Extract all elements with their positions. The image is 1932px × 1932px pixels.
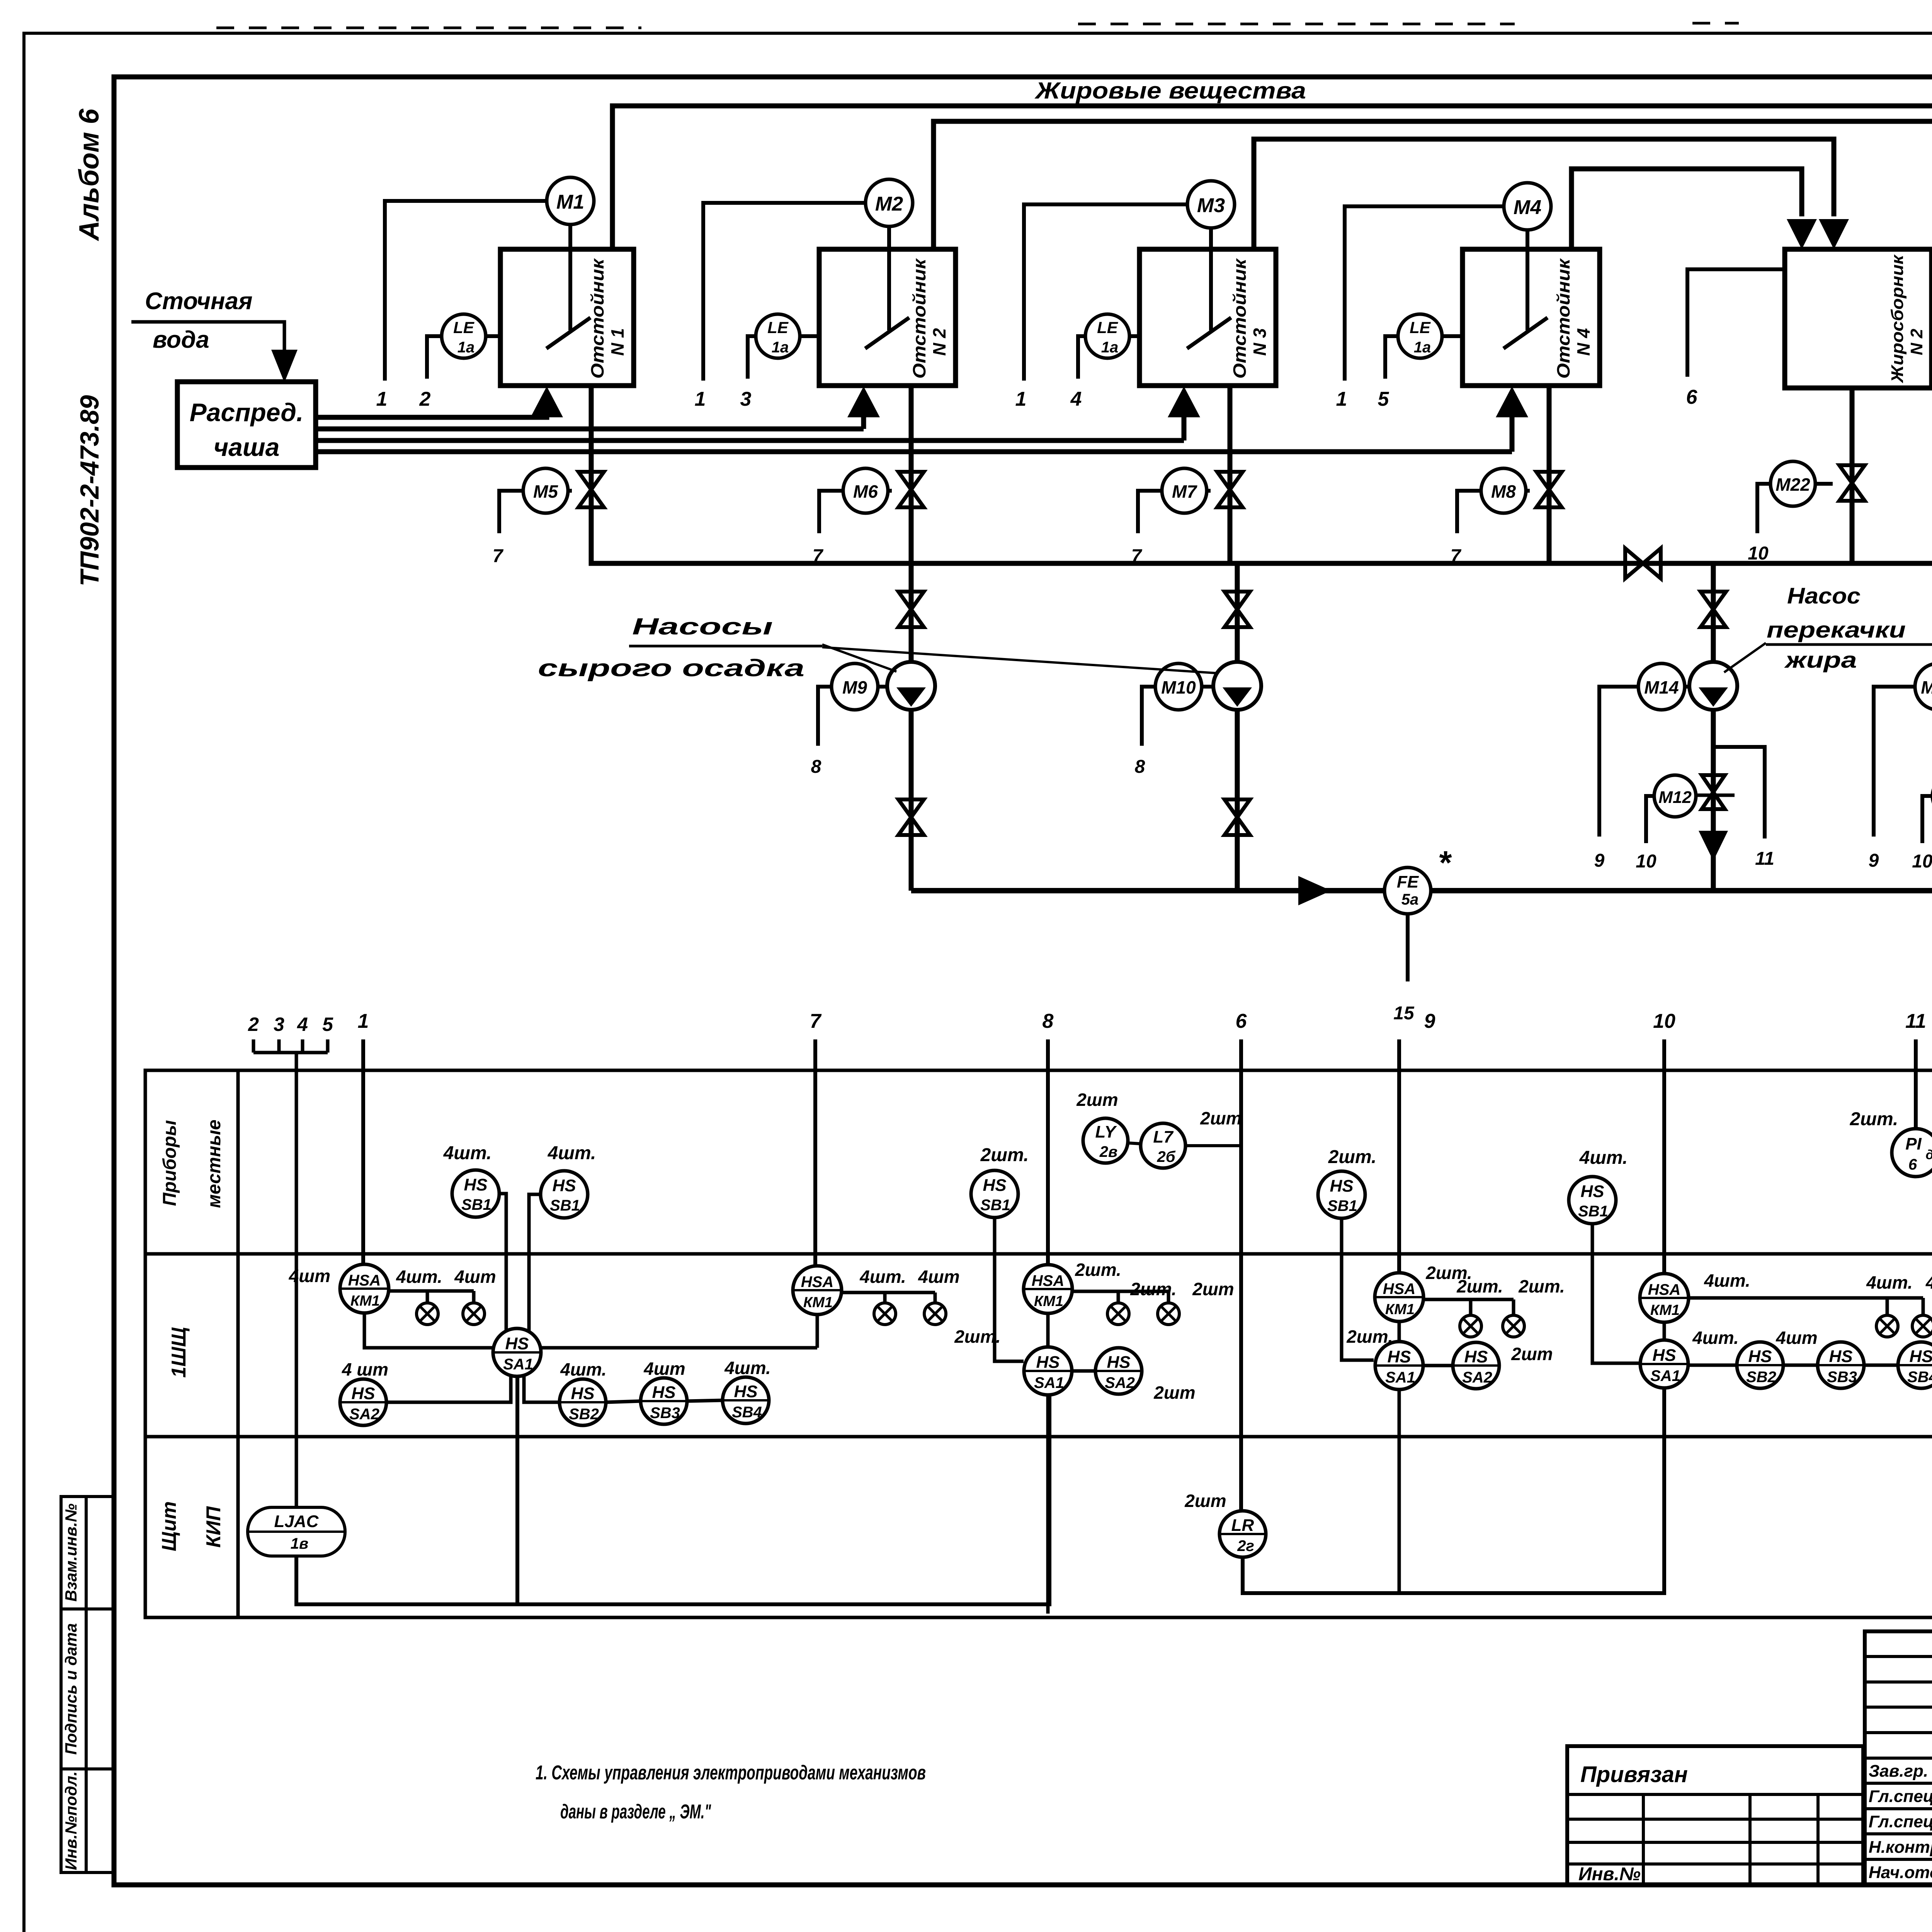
svg-text:чаша: чаша xyxy=(214,433,280,461)
wire SB1a to SA1 xyxy=(499,1194,506,1331)
motor circle М15 xyxy=(1915,663,1932,710)
wire column 8 xyxy=(1046,1039,1050,1268)
wire SA1A to SA2 xyxy=(386,1375,511,1402)
wire KM1(col10) to SA1 xyxy=(1663,1322,1666,1340)
wire KM1(col8) to SA1 xyxy=(1046,1313,1050,1347)
svg-text:10: 10 xyxy=(1636,851,1656,872)
svg-text:SB3: SB3 xyxy=(1827,1369,1857,1386)
svg-text:Насос: Насос xyxy=(1787,583,1861,609)
level device L7 2б xyxy=(1141,1123,1185,1168)
svg-text:Привязан: Привязан xyxy=(1580,1762,1688,1787)
svg-text:3: 3 xyxy=(274,1014,284,1035)
selector HS SA1 (group A) xyxy=(493,1328,541,1376)
svg-text:SB1: SB1 xyxy=(1327,1197,1357,1214)
margin strip cells xyxy=(61,1497,114,1872)
motor М13 stub 10 xyxy=(1922,796,1932,843)
wire SB1(col8) down xyxy=(995,1218,1024,1361)
svg-text:Инв.№: Инв.№ xyxy=(1578,1864,1641,1884)
wire SB2-SB3 (A) xyxy=(606,1401,641,1402)
flow element FE 5a xyxy=(1384,867,1431,914)
svg-text:HS: HS xyxy=(983,1176,1006,1195)
attach block xyxy=(1567,1746,1863,1885)
svg-text:LE: LE xyxy=(1410,318,1431,337)
svg-text:Жировые вещества: Жировые вещества xyxy=(1034,78,1306,104)
svg-text:SA1: SA1 xyxy=(1034,1374,1064,1391)
svg-text:2шт.: 2шт. xyxy=(954,1327,1001,1347)
motor М15 stub 9 xyxy=(1874,687,1915,837)
scan marks top xyxy=(216,23,1932,28)
svg-text:N 2: N 2 xyxy=(1907,328,1926,355)
riser to pump М9 xyxy=(909,563,914,891)
svg-text:КМ1: КМ1 xyxy=(1034,1293,1063,1310)
motor M6 tick xyxy=(888,489,892,493)
svg-text:7: 7 xyxy=(1131,546,1143,566)
svg-text:*: * xyxy=(1439,845,1452,881)
svg-text:HSA: HSA xyxy=(801,1274,833,1291)
svg-text:2б: 2б xyxy=(1156,1148,1175,1165)
wire SA1-SB2 (col10) xyxy=(1688,1364,1737,1367)
svg-text:2шт: 2шт xyxy=(1184,1491,1226,1511)
pipe fat line 3 xyxy=(1254,139,1834,249)
svg-text:8: 8 xyxy=(1043,1010,1054,1032)
valve M5 on drain N1 xyxy=(578,472,604,507)
selector HS SA1 (col9) xyxy=(1375,1342,1423,1389)
svg-text:перекачки: перекачки xyxy=(1767,617,1906,643)
svg-text:Насосы: Насосы xyxy=(632,614,773,639)
motor circle М14 xyxy=(1638,663,1685,710)
svg-text:6: 6 xyxy=(1236,1010,1247,1032)
svg-text:LR: LR xyxy=(1231,1516,1254,1535)
svg-text:11: 11 xyxy=(1905,1010,1926,1032)
svg-text:Подпись и дата: Подпись и дата xyxy=(62,1623,80,1755)
svg-text:д: д xyxy=(1925,1148,1932,1162)
flow arrow on line 1 xyxy=(1298,876,1331,905)
inlet leader line xyxy=(131,322,284,350)
motor M7 xyxy=(1162,468,1207,513)
lamp arm (col8) xyxy=(1072,1290,1168,1293)
LE stub (tank N1) xyxy=(427,336,442,379)
svg-text:4: 4 xyxy=(1070,388,1082,410)
svg-text:SB2: SB2 xyxy=(569,1406,599,1423)
wire LJAC to SA1 bus xyxy=(296,1396,1049,1604)
svg-text:местные: местные xyxy=(204,1120,224,1208)
lamp E2 xyxy=(1912,1315,1932,1337)
svg-text:5: 5 xyxy=(322,1014,333,1035)
svg-text:HS: HS xyxy=(505,1334,529,1353)
svg-text:М14: М14 xyxy=(1644,677,1679,697)
wire KM1(col9) to SA1 xyxy=(1398,1321,1401,1342)
svg-text:LY: LY xyxy=(1095,1122,1117,1141)
motor M8 tick xyxy=(1526,489,1530,493)
svg-text:2г: 2г xyxy=(1237,1537,1254,1554)
valve М12 xyxy=(1702,775,1725,809)
svg-text:1а: 1а xyxy=(772,339,789,356)
svg-text:8: 8 xyxy=(1135,757,1145,777)
level sensor LE 1a (tank N3) xyxy=(1085,314,1129,358)
lamp A1 xyxy=(417,1303,438,1325)
svg-text:HSA: HSA xyxy=(348,1272,381,1289)
level sensor LE 1a (tank N4) xyxy=(1398,314,1442,358)
motor М12 stub 10 xyxy=(1646,796,1654,843)
svg-text:Приборы: Приборы xyxy=(160,1120,180,1206)
tick L7-col6 xyxy=(1185,1144,1241,1147)
svg-text:2шт: 2шт xyxy=(1076,1090,1118,1110)
svg-text:LE: LE xyxy=(453,318,475,337)
svg-text:SA2: SA2 xyxy=(1105,1374,1135,1391)
wire column 1 xyxy=(361,1039,365,1264)
valve on fat N2 drain xyxy=(1839,465,1865,501)
svg-text:1: 1 xyxy=(1336,388,1347,410)
svg-text:2шт.: 2шт. xyxy=(1130,1279,1177,1299)
button HS SB1 (tanks, a) xyxy=(452,1170,499,1217)
svg-text:4шт.: 4шт. xyxy=(396,1267,442,1287)
svg-text:КМ1: КМ1 xyxy=(803,1294,833,1311)
svg-text:SB3: SB3 xyxy=(650,1405,680,1422)
wire SA1A to SB2 xyxy=(524,1375,560,1402)
button HS SB1 (col10 group) xyxy=(1569,1177,1616,1224)
wire KM1(col7) down xyxy=(816,1315,819,1348)
svg-text:LJAC: LJAC xyxy=(274,1512,319,1531)
motor M1 xyxy=(547,177,594,224)
svg-text:2шт.: 2шт. xyxy=(980,1145,1029,1165)
svg-text:2шт: 2шт xyxy=(1153,1383,1195,1403)
lamp arm (col10) xyxy=(1689,1296,1923,1300)
svg-text:2шт.: 2шт. xyxy=(1075,1260,1121,1280)
distribution line D xyxy=(316,449,1512,454)
lamp C1 xyxy=(1107,1303,1129,1325)
svg-text:1а: 1а xyxy=(1414,339,1431,356)
motor circle М10 xyxy=(1155,663,1202,710)
tank Отстойник N3 xyxy=(1139,249,1276,386)
fat tank N2 drain pipe xyxy=(1850,388,1855,563)
distribution bowl box xyxy=(177,382,316,468)
svg-text:сырого осадка: сырого осадка xyxy=(538,655,804,682)
svg-text:4шт: 4шт xyxy=(918,1267,959,1287)
svg-text:3: 3 xyxy=(740,388,752,410)
svg-text:HS: HS xyxy=(1652,1346,1676,1365)
LE stub (tank N2) xyxy=(748,336,756,379)
table outline xyxy=(145,1070,1932,1617)
wire column 11 xyxy=(1914,1039,1918,1129)
LE stub (tank N4) xyxy=(1385,336,1398,379)
svg-text:2в: 2в xyxy=(1099,1143,1117,1160)
svg-text:4шт.: 4шт. xyxy=(1704,1270,1750,1291)
motor M4 xyxy=(1504,183,1551,230)
svg-text:М22: М22 xyxy=(1776,474,1810,495)
rake of tank N2 xyxy=(887,224,891,330)
lamp C2 xyxy=(1158,1303,1179,1325)
svg-text:HS: HS xyxy=(734,1382,757,1401)
svg-text:вода: вода xyxy=(153,327,209,353)
motor М9 tick xyxy=(878,685,887,689)
svg-text:Инв.№подл.: Инв.№подл. xyxy=(62,1771,80,1870)
recorder LR 2г xyxy=(1219,1511,1266,1557)
svg-text:1. Схемы управления электроп: 1. Схемы управления электроприводами мех… xyxy=(536,1762,926,1784)
drain pipe of tank N2 xyxy=(909,386,914,563)
motor M5 stub 7 xyxy=(499,491,523,533)
svg-text:1: 1 xyxy=(695,388,706,410)
rake of tank N4 xyxy=(1526,224,1529,330)
svg-text:4шт.: 4шт. xyxy=(1866,1272,1913,1293)
svg-text:N 4: N 4 xyxy=(1573,328,1594,356)
svg-text:1а: 1а xyxy=(457,339,475,356)
svg-text:ТП902-2-473.89: ТП902-2-473.89 xyxy=(75,395,104,586)
suction valve of М14 xyxy=(1701,592,1726,627)
button HS SB4 (group A) xyxy=(723,1377,769,1423)
svg-text:9: 9 xyxy=(1594,850,1605,871)
svg-text:SA2: SA2 xyxy=(349,1406,379,1423)
svg-text:15: 15 xyxy=(1393,1003,1415,1024)
motor М10 stub 8 xyxy=(1142,687,1155,746)
svg-text:Альбом 6: Альбом 6 xyxy=(74,108,105,241)
svg-text:М9: М9 xyxy=(842,677,867,697)
motor M7 stub 7 xyxy=(1138,491,1162,533)
button HS SB2 (col10) xyxy=(1737,1342,1783,1388)
motor M1 control line xyxy=(385,201,547,381)
lamp B2 xyxy=(924,1303,946,1325)
selector HS SA2 (group A) xyxy=(340,1379,386,1425)
svg-text:HS: HS xyxy=(1748,1347,1772,1366)
svg-text:HSA: HSA xyxy=(1383,1281,1415,1298)
svg-text:2шт: 2шт xyxy=(1200,1108,1242,1128)
FE stub 15 xyxy=(1406,914,1410,981)
svg-text:Нач.отд.: Нач.отд. xyxy=(1869,1863,1932,1882)
svg-text:PI: PI xyxy=(1905,1134,1922,1153)
svg-text:2шт: 2шт xyxy=(1192,1279,1234,1299)
arrow into tank N3 bottom xyxy=(1182,415,1187,440)
svg-text:N 1: N 1 xyxy=(607,328,628,356)
discharge valve of М9 xyxy=(898,799,924,835)
drain pipe of tank N3 xyxy=(1228,386,1233,563)
pipe fat line 1 xyxy=(612,106,1932,249)
rake of tank N3 xyxy=(1209,224,1213,330)
motor M5 tick xyxy=(568,489,572,493)
svg-text:1а: 1а xyxy=(1101,339,1119,356)
discharge valve of М10 xyxy=(1225,799,1250,835)
svg-text:Гл.спец.: Гл.спец. xyxy=(1869,1812,1932,1831)
svg-text:М3: М3 xyxy=(1197,194,1225,217)
svg-text:N 2: N 2 xyxy=(929,328,949,356)
svg-text:FE: FE xyxy=(1397,872,1419,891)
lamp arm (group A) xyxy=(389,1289,474,1293)
svg-text:8: 8 xyxy=(811,757,821,777)
svg-text:HS: HS xyxy=(351,1384,375,1403)
starter NSA KM1 (col10) xyxy=(1640,1274,1689,1322)
svg-text:4шт.: 4шт. xyxy=(548,1143,596,1163)
svg-text:даны в разделе „ ЭМ.": даны в разделе „ ЭМ." xyxy=(560,1801,711,1823)
selector HS SA1 (col8) xyxy=(1024,1347,1072,1395)
svg-text:SA1: SA1 xyxy=(503,1356,533,1373)
riser to pump М10 xyxy=(1235,563,1240,891)
signature table xyxy=(1865,1631,1932,1885)
selector HS SA2 (col8) xyxy=(1095,1348,1142,1394)
svg-text:SA1: SA1 xyxy=(1385,1369,1415,1386)
valve M8 on drain N4 xyxy=(1536,472,1562,507)
svg-text:КМ1: КМ1 xyxy=(1650,1302,1680,1318)
svg-text:КМ1: КМ1 xyxy=(350,1293,380,1309)
arrow into tank N1 bottom xyxy=(531,386,563,417)
svg-text:HS: HS xyxy=(1330,1177,1353,1196)
gauge PI 6д xyxy=(1892,1129,1932,1177)
starter NSA KM1 (col9) xyxy=(1375,1273,1423,1321)
sludge pump М10 xyxy=(1213,662,1261,710)
svg-text:4шт.: 4шт. xyxy=(1579,1148,1628,1168)
svg-text:HSA: HSA xyxy=(1032,1272,1064,1289)
svg-text:Гл.спец.: Гл.спец. xyxy=(1869,1787,1932,1806)
lamp arm (col7) xyxy=(842,1291,935,1294)
rake of tank N1 xyxy=(568,224,572,330)
svg-text:2шт.: 2шт. xyxy=(1456,1276,1503,1296)
suction valve of М9 xyxy=(898,592,924,627)
svg-text:SB4: SB4 xyxy=(732,1404,762,1421)
svg-text:7: 7 xyxy=(813,546,824,566)
starter HSA KM1 (group A) xyxy=(340,1264,389,1313)
svg-text:6: 6 xyxy=(1686,386,1698,408)
motor circle М12 xyxy=(1654,775,1696,817)
motor M4 control line xyxy=(1345,206,1504,381)
arrow into fat tank N2 left xyxy=(1787,219,1817,249)
svg-text:10: 10 xyxy=(1748,543,1769,564)
svg-text:М6: М6 xyxy=(853,481,878,502)
svg-text:LE: LE xyxy=(1097,318,1119,337)
svg-text:10: 10 xyxy=(1912,851,1932,872)
svg-text:4шт.: 4шт. xyxy=(859,1267,906,1287)
svg-text:Сточная: Сточная xyxy=(145,288,252,315)
svg-text:КИП: КИП xyxy=(202,1506,225,1548)
svg-text:2шт: 2шт xyxy=(1511,1344,1553,1364)
leader to pump M9 xyxy=(822,645,896,672)
svg-text:HS: HS xyxy=(464,1175,487,1194)
arrow into fat tank N2 right xyxy=(1819,219,1849,249)
motor M6 stub 7 xyxy=(819,491,843,533)
motor M7 tick xyxy=(1207,489,1211,493)
tank Отстойник N4 xyxy=(1463,249,1600,386)
svg-text:9: 9 xyxy=(1424,1010,1435,1032)
motor M22 stub 10 xyxy=(1757,484,1770,533)
wire SA1-SA2 (col9) xyxy=(1423,1364,1453,1367)
suction valve of М10 xyxy=(1225,592,1250,627)
svg-text:2шт.: 2шт. xyxy=(1850,1109,1898,1129)
inlet arrow xyxy=(271,350,298,383)
svg-text:М15: М15 xyxy=(1921,677,1932,697)
svg-text:2шт.: 2шт. xyxy=(1518,1276,1565,1296)
svg-text:N 3: N 3 xyxy=(1250,328,1270,356)
svg-text:4шт.: 4шт. xyxy=(443,1143,492,1163)
svg-text:жира: жира xyxy=(1784,648,1857,673)
arrow into tank N2 bottom xyxy=(861,415,866,429)
pressure line 1 (emptying) xyxy=(911,888,1932,893)
motor M22 xyxy=(1770,461,1815,506)
svg-text:6: 6 xyxy=(1908,1156,1917,1173)
svg-text:М1: М1 xyxy=(556,191,584,213)
svg-text:HSA: HSA xyxy=(1648,1281,1680,1298)
lamp A2 xyxy=(463,1303,485,1325)
svg-text:LE: LE xyxy=(767,318,789,337)
wire KM1A to SA1A bus xyxy=(364,1313,817,1348)
motor М10 tick xyxy=(1202,685,1213,689)
svg-text:1: 1 xyxy=(376,388,388,410)
svg-text:HS: HS xyxy=(1464,1347,1488,1366)
svg-text:Отстойник: Отстойник xyxy=(1230,258,1250,379)
svg-text:4шт.: 4шт. xyxy=(560,1359,607,1379)
svg-text:Отстойник: Отстойник xyxy=(1553,258,1573,379)
wire SA1A down xyxy=(515,1376,519,1604)
svg-text:7: 7 xyxy=(1451,546,1462,566)
lamp B1 xyxy=(874,1303,896,1325)
svg-text:4шт: 4шт xyxy=(643,1359,685,1379)
svg-text:SA1: SA1 xyxy=(1650,1367,1680,1384)
svg-text:4шт: 4шт xyxy=(454,1267,496,1287)
wire SB1b to SA1 xyxy=(529,1194,541,1331)
motor M8 xyxy=(1481,468,1526,513)
svg-text:Щит: Щит xyxy=(158,1501,180,1551)
level sensor LE 1a (tank N2) xyxy=(756,314,800,358)
button HS SB1 (col9 group) xyxy=(1318,1171,1365,1218)
svg-text:HS: HS xyxy=(571,1384,594,1403)
wire LR bus xyxy=(1243,1388,1664,1593)
motor M6 xyxy=(843,468,888,513)
svg-text:Отстойник: Отстойник xyxy=(909,258,929,379)
svg-text:Жиросборник: Жиросборник xyxy=(1888,254,1907,383)
distribution line A xyxy=(316,415,547,417)
wire SA1-SA2 (col8) xyxy=(1072,1369,1095,1373)
svg-text:SA2: SA2 xyxy=(1462,1369,1492,1386)
motor M2 control line xyxy=(703,203,866,381)
valve M7 on drain N3 xyxy=(1217,472,1243,507)
valve M6 on drain N2 xyxy=(898,472,924,507)
svg-text:HS: HS xyxy=(1387,1347,1411,1366)
selector HS SA1 (col10) xyxy=(1640,1340,1688,1388)
down arrow of М14 onto line 1 xyxy=(1699,831,1728,861)
svg-text:10: 10 xyxy=(1653,1010,1675,1032)
button HS SB2 (group A) xyxy=(560,1379,606,1425)
svg-text:HS: HS xyxy=(1580,1182,1604,1201)
button HS SB3 (col10) xyxy=(1818,1342,1864,1388)
wire column 7 xyxy=(813,1039,817,1268)
starter HSA KM1 (col7) xyxy=(793,1266,842,1315)
pipe fat line 2 xyxy=(934,121,1932,249)
button HS SB1 (col8 group) xyxy=(971,1170,1018,1218)
button HS SB1 (tanks, b) xyxy=(541,1171,588,1218)
arrow into tank N4 bottom xyxy=(1510,415,1515,452)
level sensor LE 1a (tank N1) xyxy=(442,314,486,358)
main sludge collector line xyxy=(591,386,1932,563)
motor M8 stub 7 xyxy=(1457,491,1481,533)
lamp D1 xyxy=(1460,1315,1481,1337)
drain pipe of tank N4 xyxy=(1547,386,1552,563)
lamp D2 xyxy=(1503,1315,1524,1337)
svg-text:11: 11 xyxy=(1755,849,1774,869)
wire SB1(col9) down xyxy=(1342,1218,1374,1360)
svg-text:М12: М12 xyxy=(1658,788,1692,807)
svg-text:SB1: SB1 xyxy=(461,1196,492,1213)
svg-text:SB2: SB2 xyxy=(1746,1369,1776,1386)
fat pump М14 xyxy=(1689,662,1737,710)
svg-text:HS: HS xyxy=(1829,1347,1852,1366)
fat tank Жиросборник N2 xyxy=(1785,249,1932,388)
leader to pump M14 xyxy=(1724,643,1766,672)
leader to pump M10 xyxy=(822,647,1216,673)
svg-text:HS: HS xyxy=(552,1176,576,1195)
svg-text:4шт: 4шт xyxy=(1776,1328,1817,1348)
motor circle М9 xyxy=(832,663,878,710)
wire column 6 xyxy=(1239,1039,1243,1510)
svg-text:5а: 5а xyxy=(1401,891,1419,908)
svg-text:SB4: SB4 xyxy=(1907,1369,1932,1386)
fat tank N2 stub 6 xyxy=(1687,269,1785,377)
wire SB3-SB4 (A) xyxy=(687,1400,723,1401)
distribution line C xyxy=(316,438,1184,443)
